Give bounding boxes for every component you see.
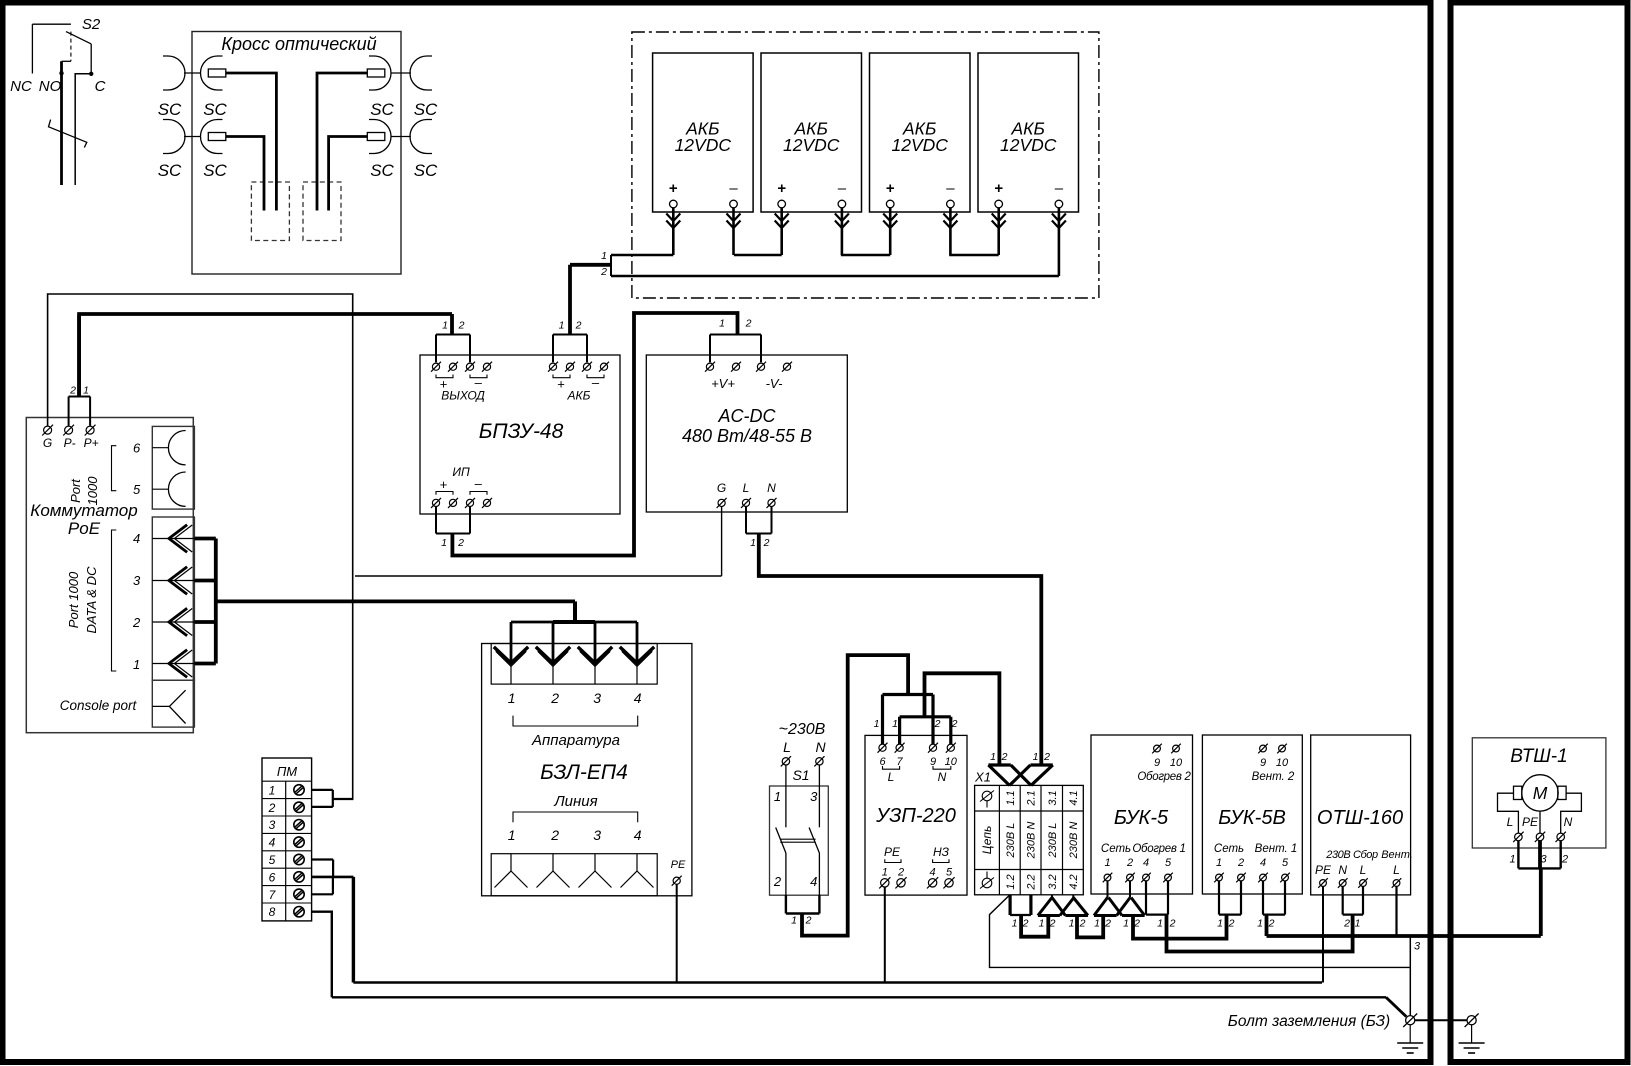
svg-text:1: 1 <box>269 783 276 797</box>
svg-text:БЗЛ-ЕП4: БЗЛ-ЕП4 <box>540 761 628 784</box>
svg-text:–: – <box>475 476 483 491</box>
svg-text:1: 1 <box>791 915 797 927</box>
svg-text:SC: SC <box>370 161 394 180</box>
svg-text:ПМ: ПМ <box>277 764 297 779</box>
svg-text:4: 4 <box>269 836 276 850</box>
svg-text:3.1: 3.1 <box>1047 790 1059 805</box>
svg-text:2: 2 <box>550 827 559 843</box>
svg-text:2: 2 <box>805 915 812 927</box>
svg-text:1: 1 <box>1216 857 1222 869</box>
svg-text:230В L: 230В L <box>1047 823 1059 859</box>
svg-text:1: 1 <box>1355 918 1361 930</box>
svg-text:3: 3 <box>269 818 276 832</box>
svg-text:1: 1 <box>1012 918 1018 930</box>
svg-text:~230В: ~230В <box>779 721 826 738</box>
svg-text:4: 4 <box>1260 857 1266 869</box>
svg-text:+: + <box>669 180 678 197</box>
svg-text:3: 3 <box>593 827 601 843</box>
svg-text:1: 1 <box>83 385 89 397</box>
svg-text:PE: PE <box>671 859 686 871</box>
svg-text:–: – <box>838 180 847 197</box>
svg-text:1: 1 <box>1157 918 1163 930</box>
svg-text:G: G <box>43 436 52 450</box>
svg-text:1: 1 <box>874 718 880 730</box>
svg-text:1000: 1000 <box>85 476 100 506</box>
svg-text:3: 3 <box>1414 941 1421 953</box>
svg-text:1: 1 <box>441 537 447 549</box>
svg-text:–: – <box>1055 180 1064 197</box>
svg-text:Коммутатор: Коммутатор <box>30 501 137 520</box>
svg-text:2.1: 2.1 <box>1026 790 1038 806</box>
svg-text:1: 1 <box>1509 854 1515 866</box>
svg-text:АКБ: АКБ <box>567 389 591 403</box>
svg-text:1: 1 <box>990 751 996 763</box>
svg-text:10: 10 <box>1170 757 1183 769</box>
svg-text:N: N <box>1564 815 1573 829</box>
svg-text:2: 2 <box>1043 751 1050 763</box>
svg-text:SC: SC <box>370 100 394 119</box>
svg-text:4: 4 <box>1143 857 1149 869</box>
svg-text:5: 5 <box>946 867 953 879</box>
svg-text:NO: NO <box>39 78 62 95</box>
svg-text:4: 4 <box>634 827 642 843</box>
svg-text:8: 8 <box>269 905 276 919</box>
svg-text:5: 5 <box>1165 857 1172 869</box>
svg-text:1: 1 <box>1039 918 1045 930</box>
svg-text:PE: PE <box>884 845 901 859</box>
svg-text:2.2: 2.2 <box>1026 874 1038 890</box>
svg-text:1: 1 <box>1033 751 1039 763</box>
svg-text:4: 4 <box>133 531 140 546</box>
svg-text:N: N <box>938 770 947 784</box>
svg-text:БУК-5: БУК-5 <box>1114 807 1169 829</box>
svg-text:2: 2 <box>745 318 752 330</box>
svg-text:L: L <box>1393 863 1400 877</box>
svg-text:2: 2 <box>458 320 465 332</box>
svg-text:Port 1000: Port 1000 <box>66 571 81 628</box>
svg-text:Port: Port <box>68 478 83 503</box>
svg-text:P+: P+ <box>84 436 99 450</box>
svg-text:2: 2 <box>897 867 904 879</box>
svg-text:1: 1 <box>1257 918 1263 930</box>
svg-text:N: N <box>767 481 776 495</box>
svg-text:3: 3 <box>593 690 601 706</box>
svg-text:Обогрев 1: Обогрев 1 <box>1132 843 1185 855</box>
svg-text:230В N: 230В N <box>1068 822 1080 860</box>
svg-text:Вент. 2: Вент. 2 <box>1252 771 1295 783</box>
svg-text:БПЗУ-48: БПЗУ-48 <box>479 420 564 443</box>
svg-text:4: 4 <box>810 874 817 889</box>
svg-text:3.2: 3.2 <box>1047 874 1059 889</box>
svg-text:4.1: 4.1 <box>1068 790 1080 805</box>
svg-text:+: + <box>440 477 448 492</box>
svg-text:Сеть: Сеть <box>1101 843 1131 855</box>
svg-text:DATA & DC: DATA & DC <box>84 566 99 634</box>
svg-text:2: 2 <box>268 801 276 815</box>
svg-text:1: 1 <box>882 867 888 879</box>
svg-text:2: 2 <box>132 615 141 630</box>
svg-text:1: 1 <box>1104 857 1110 869</box>
svg-text:L: L <box>743 481 750 495</box>
svg-text:G: G <box>717 481 726 495</box>
svg-text:5: 5 <box>269 853 276 867</box>
svg-text:PE: PE <box>1315 863 1332 877</box>
svg-text:L: L <box>1507 815 1514 829</box>
svg-text:6: 6 <box>133 441 141 456</box>
svg-text:230В N: 230В N <box>1026 822 1038 860</box>
svg-text:Сеть: Сеть <box>1214 843 1244 855</box>
svg-text:2: 2 <box>1126 857 1133 869</box>
svg-text:2: 2 <box>550 690 559 706</box>
svg-text:SC: SC <box>158 161 182 180</box>
svg-text:1: 1 <box>774 789 781 804</box>
svg-text:1: 1 <box>601 250 607 262</box>
svg-text:БУК-5В: БУК-5В <box>1218 807 1286 829</box>
svg-text:2: 2 <box>1237 857 1244 869</box>
svg-text:+: + <box>777 180 786 197</box>
svg-text:9: 9 <box>1154 757 1160 769</box>
svg-text:Болт заземления (БЗ): Болт заземления (БЗ) <box>1228 1013 1390 1030</box>
svg-text:2: 2 <box>773 874 782 889</box>
svg-text:12VDC: 12VDC <box>1000 135 1057 155</box>
svg-text:–: – <box>946 180 955 197</box>
svg-text:230В L: 230В L <box>1005 823 1017 859</box>
svg-text:2: 2 <box>457 537 464 549</box>
svg-text:SC: SC <box>203 100 227 119</box>
svg-text:1: 1 <box>508 690 516 706</box>
svg-text:Вент. 1: Вент. 1 <box>1255 843 1298 855</box>
svg-text:P-: P- <box>64 436 76 450</box>
svg-text:5: 5 <box>133 482 141 497</box>
svg-text:1.2: 1.2 <box>1005 874 1017 889</box>
svg-text:L: L <box>783 739 791 755</box>
svg-text:1: 1 <box>719 318 725 330</box>
svg-text:2: 2 <box>575 320 582 332</box>
svg-text:PE: PE <box>1522 815 1539 829</box>
svg-text:2: 2 <box>763 537 770 549</box>
svg-text:2: 2 <box>1343 918 1350 930</box>
svg-text:Цепь: Цепь <box>980 826 994 855</box>
svg-text:-V-: -V- <box>766 376 784 391</box>
svg-text:12VDC: 12VDC <box>675 135 732 155</box>
svg-text:ОТШ-160: ОТШ-160 <box>1317 807 1403 829</box>
svg-text:4: 4 <box>930 867 936 879</box>
svg-text:4: 4 <box>634 690 642 706</box>
svg-text:–: – <box>592 375 600 390</box>
svg-text:5: 5 <box>1282 857 1289 869</box>
svg-text:10: 10 <box>1276 757 1289 769</box>
svg-text:S2: S2 <box>82 16 101 33</box>
svg-text:Обогрев 2: Обогрев 2 <box>1137 771 1191 783</box>
svg-text:УЗП-220: УЗП-220 <box>875 805 956 827</box>
svg-text:Линия: Линия <box>553 793 597 810</box>
svg-text:ИП: ИП <box>452 465 470 479</box>
svg-text:М: М <box>1533 783 1548 803</box>
svg-text:+: + <box>557 377 565 392</box>
svg-text:1: 1 <box>1217 918 1223 930</box>
svg-text:N: N <box>815 739 826 755</box>
svg-text:12VDC: 12VDC <box>783 135 840 155</box>
svg-text:SC: SC <box>203 161 227 180</box>
svg-text:480 Вт/48-55 В: 480 Вт/48-55 В <box>682 426 812 446</box>
svg-text:2: 2 <box>1169 918 1176 930</box>
svg-text:2: 2 <box>1001 751 1008 763</box>
svg-text:1: 1 <box>133 657 140 672</box>
svg-text:+: + <box>994 180 1003 197</box>
svg-text:2: 2 <box>1268 918 1275 930</box>
svg-text:9: 9 <box>1260 757 1266 769</box>
svg-text:1: 1 <box>1069 918 1075 930</box>
svg-text:AC-DC: AC-DC <box>718 406 777 426</box>
svg-text:ВЫХОД: ВЫХОД <box>441 389 485 403</box>
svg-text:N: N <box>1338 863 1347 877</box>
svg-text:1: 1 <box>1123 918 1129 930</box>
svg-text:X1: X1 <box>974 770 991 785</box>
svg-text:1: 1 <box>508 827 516 843</box>
svg-text:2: 2 <box>600 266 607 278</box>
svg-text:–: – <box>729 180 738 197</box>
svg-text:L: L <box>888 770 895 784</box>
svg-text:+V+: +V+ <box>711 376 735 391</box>
svg-text:2: 2 <box>1561 854 1568 866</box>
svg-text:S1: S1 <box>792 767 809 783</box>
svg-text:4.2: 4.2 <box>1068 874 1080 889</box>
svg-text:ВТШ-1: ВТШ-1 <box>1510 746 1567 767</box>
svg-text:C: C <box>95 78 106 95</box>
svg-text:NC: NC <box>10 78 32 95</box>
svg-text:PoE: PoE <box>68 519 101 538</box>
svg-text:1: 1 <box>442 320 448 332</box>
svg-text:1: 1 <box>1094 918 1100 930</box>
svg-text:6: 6 <box>269 870 276 884</box>
svg-text:12VDC: 12VDC <box>891 135 948 155</box>
svg-text:3: 3 <box>810 789 818 804</box>
svg-text:1: 1 <box>750 537 756 549</box>
svg-text:1: 1 <box>559 320 565 332</box>
svg-text:Вент.: Вент. <box>1381 849 1413 861</box>
svg-text:Кросс оптический: Кросс оптический <box>221 34 376 54</box>
svg-text:L: L <box>1360 863 1367 877</box>
svg-text:SC: SC <box>414 100 438 119</box>
svg-text:2: 2 <box>69 385 76 397</box>
svg-text:1: 1 <box>892 718 898 730</box>
svg-text:230В Сбор: 230В Сбор <box>1325 849 1378 861</box>
svg-text:НЗ: НЗ <box>933 845 950 859</box>
svg-text:SC: SC <box>158 100 182 119</box>
svg-text:2: 2 <box>951 718 958 730</box>
svg-text:+: + <box>886 180 895 197</box>
svg-text:SC: SC <box>414 161 438 180</box>
svg-text:3: 3 <box>133 573 141 588</box>
svg-text:1.1: 1.1 <box>1005 790 1017 805</box>
svg-text:2: 2 <box>1049 918 1056 930</box>
svg-text:Аппаратура: Аппаратура <box>531 732 620 749</box>
svg-text:2: 2 <box>1104 918 1111 930</box>
svg-text:2: 2 <box>934 718 941 730</box>
svg-text:2: 2 <box>1228 918 1235 930</box>
svg-text:2: 2 <box>1079 918 1086 930</box>
svg-text:Console port: Console port <box>60 698 138 713</box>
